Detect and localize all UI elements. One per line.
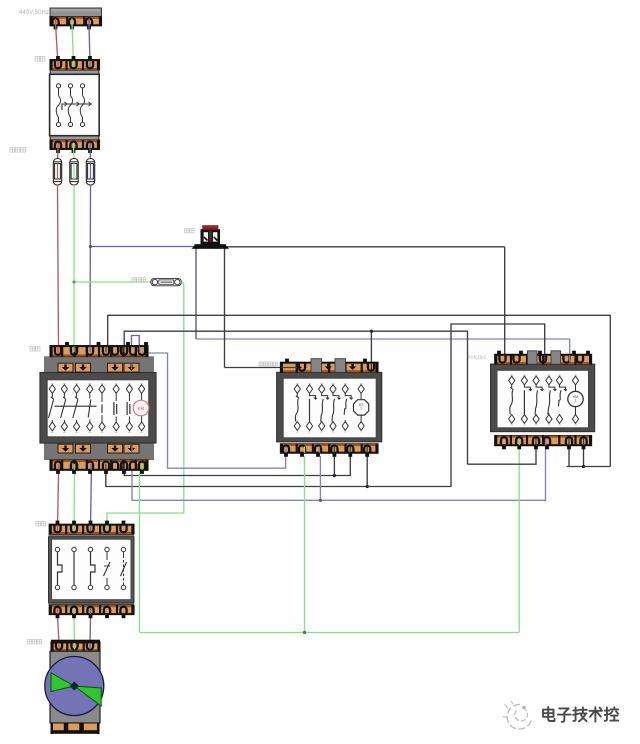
wire H500 KM1 coil to KA2 T4b [132,447,546,500]
junction KA1 T6 [366,485,369,488]
wire FR to motor V [73,616,76,644]
wire H512 green to FR T4 [107,513,184,527]
contactor KM1 linkage bar [55,405,97,407]
motor M fan blades [51,673,74,692]
relay KA2 top terminals [495,354,592,364]
junction KA1 T4 [333,474,336,477]
junction L2 tap [72,280,75,283]
contactor KM1 top inner terminals [58,363,73,372]
fuse FU2 horizontal [151,278,182,285]
relay KA2 coil [575,385,577,391]
label breaker QF [35,57,45,62]
contactor KM1 body [44,356,154,372]
junction green bus KA1 [303,631,306,634]
wire KM1 to FR L1 [58,470,59,527]
wire H367 tip into KA1 cell [281,367,301,369]
motor M top terminals [51,640,100,642]
green control wire drop [183,284,185,513]
wire FR to motor W [89,616,92,644]
contactor KM1 aux contacts [89,393,91,398]
wire L3 fuse to KM1 [89,185,92,348]
motor M bottom terminals [52,723,99,732]
contactor KM1 bottom inner terminals [58,444,73,453]
wire L3 source to breaker [89,24,90,64]
junction H466 [582,465,585,468]
wire H464 riser467 to KA2 T3b [468,447,537,464]
relay KA2 contact 2 [524,385,532,391]
wire KA2 T6b stub [583,447,585,467]
relay KA2 bottom terminals [495,436,592,446]
thermal relay FR bottom terminals [49,605,134,615]
wire green KA2 T2b drop [518,447,520,633]
relay KA1 contact 2 [310,393,318,399]
label relay KA1 [259,362,277,366]
motor M hub [70,682,79,691]
contactor KM1 contacts [49,385,55,394]
wire green KM1 T8b to bottom bus [139,466,142,633]
junction KA1 coil tap [370,330,373,333]
contactor KM1 bottom outer terminals [50,460,148,471]
thermal relay FR trip contact NC [106,552,108,560]
wire green KA1 T2b drop [304,456,306,633]
motor M body [50,651,100,723]
fuse FU1-1 [53,159,61,186]
wire L2 fuse to KM1 [73,185,75,348]
wire L1 source to breaker [56,24,59,64]
wire H247 button to KA2 [226,246,505,248]
relay KA1 top terminals [280,362,378,372]
wire L2 breaker to fuse [73,149,76,159]
svg-text:KM(1)p2: KM(1)p2 [468,355,487,361]
wire tips at terminals [55,19,57,26]
wire H338 button-left to KA2 coil [196,338,570,340]
wire L3 breaker to fuse [89,149,92,159]
relay KA1 body [277,372,382,441]
wire L3 tap to stop button [91,246,197,248]
wire H486 KM1 T5b to riser451 [106,470,451,487]
watermark logo [507,704,531,729]
stop button SB1 right leg down [224,247,226,368]
breaker QF trip bar [62,104,92,110]
relay KA1 contacts [294,385,300,394]
label fuse FU2 [132,278,146,282]
stop button SB1 [195,244,227,248]
thermal relay FR body [49,534,135,605]
wire L2 source to breaker [72,24,74,64]
fuse FU1-3 [86,159,94,186]
thermal relay FR top terminals [49,524,134,534]
wire KM1 to FR L2 [73,470,76,527]
relay KA2 contact 1 [511,385,513,388]
wire H353 KM1 T8 to riser [139,353,285,468]
breaker QF body [50,70,100,140]
relay KA2 contacts [509,376,515,385]
breaker QF top terminals [50,60,100,71]
wire KM1 pi-link inner T4 to outer T8 [132,336,140,365]
relay KA1 contact 1 [296,393,298,396]
wire H1 self-hold KM1 to right riser [108,315,611,466]
wire KA2 T5b stub [568,447,570,467]
thermal relay FR heater elements [55,547,59,551]
watermark text dianzi-jishu-kong drawn as strokes [543,707,618,722]
wire L1 fuse to KM1 [58,185,59,348]
breaker QF bottom terminals [50,140,100,149]
contactor KM1 coil [141,393,143,400]
label motor M [27,640,42,644]
wire H367 button-right to KA1 T1 [225,367,302,369]
motor M rotor disc [45,657,104,716]
label button SB1 [185,229,195,233]
relay KA1 contacts 3-5 [322,393,330,399]
label thermal relay FR [36,522,46,526]
wire H466 KA2 T5b/T6b to riser610 [567,466,611,468]
junction H500 KA1 [319,499,322,502]
wire FR to motor U [58,616,60,644]
junction L3 tap [89,245,92,248]
wire KA1 T6 riser to H486 [366,456,368,487]
svg-text:440V,50Hz: 440V,50Hz [19,10,49,16]
thermal relay FR trip contact NO [123,552,125,558]
breaker QF pole 1 symbol [56,84,60,88]
fuse FU1-2 [70,159,78,186]
wire H2 KM1 to KA2 chain [124,331,467,464]
contactor KM1 top outer terminals [50,346,148,357]
wire fuse FU2 to green drop [181,282,183,285]
wire L2 tap to fuse FU2 [74,281,151,283]
label contactor KM1 [30,347,40,352]
relay KA1 bottom terminals [280,444,378,453]
wire KA1 coil tap from H2 [370,331,372,366]
relay KA2 body [491,364,595,431]
svg-text:1: 1 [360,407,362,411]
wire H324 riser to KA2 T3 [451,324,545,487]
relay KA1 coil [360,393,362,399]
wire green bottom bus [139,632,519,634]
label fuse FU1 [10,148,25,153]
wire KA1 T3b riser to H500 [319,456,321,500]
relay KA2 contacts 3-5 [536,385,544,391]
svg-text:2: 2 [575,399,577,403]
wire L1 breaker to fuse [57,149,60,159]
wire H475 KM1 T6b to KA1 T4/T5 [124,456,350,476]
svg-text:KM: KM [138,406,145,411]
stop button SB1 left leg down [195,247,197,339]
power source terminal block TB1 [50,8,102,17]
wire KM1 to FR L3 [90,470,93,527]
wire KA1 T4 riser [333,456,335,476]
